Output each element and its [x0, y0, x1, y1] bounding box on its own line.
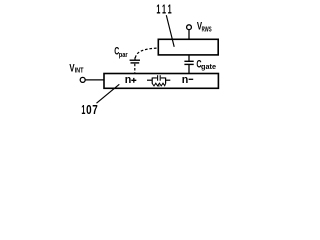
svg-text:par: par [119, 52, 128, 59]
svg-text:n: n [182, 74, 189, 86]
svg-text:INT: INT [75, 67, 84, 74]
svg-text:1: 1 [156, 2, 160, 16]
svg-text:n: n [125, 74, 132, 86]
svg-text:1: 1 [168, 2, 172, 16]
svg-text:1: 1 [162, 2, 166, 16]
svg-text:RWS: RWS [202, 25, 212, 34]
svg-text:7: 7 [92, 103, 98, 117]
svg-text:0: 0 [86, 103, 92, 117]
svg-text:1: 1 [81, 103, 85, 117]
svg-text:gate: gate [201, 62, 216, 71]
